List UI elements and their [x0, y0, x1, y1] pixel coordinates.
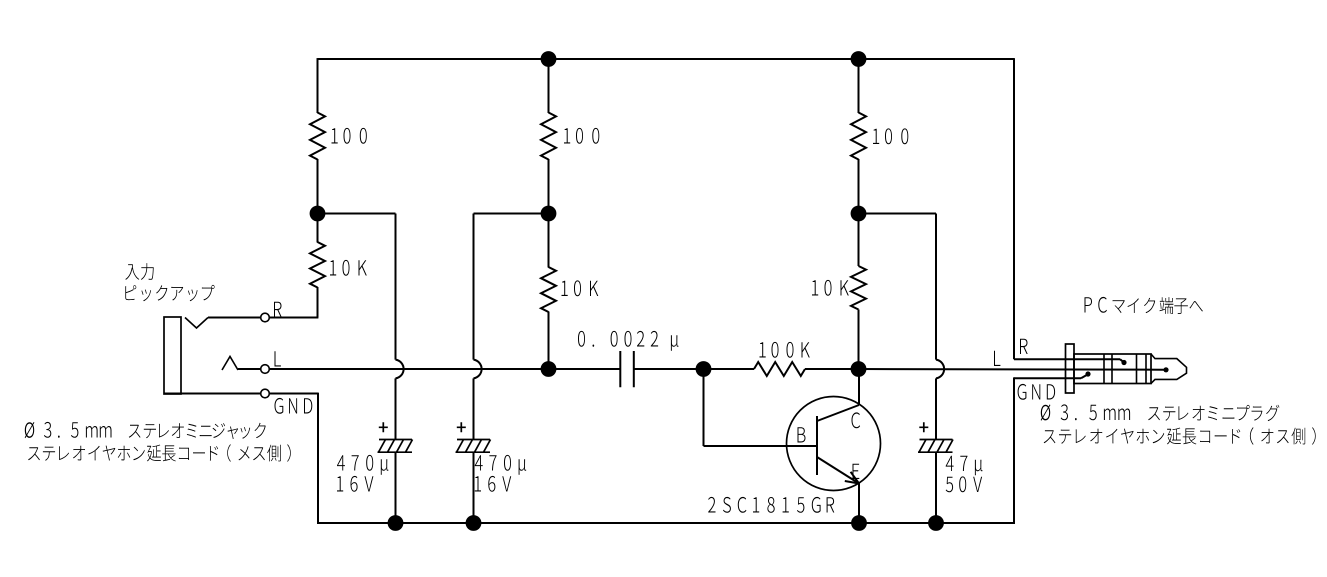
- label R3 100: [873, 128, 908, 144]
- label P1 L: [994, 351, 1000, 366]
- junction top rail right: [851, 51, 867, 67]
- wire base node down: [703, 369, 705, 446]
- plug P1 ring contact dot: [1121, 360, 1126, 365]
- label R1 100: [332, 128, 367, 144]
- label C4 50V: [946, 476, 982, 492]
- label C2 470u: [475, 455, 526, 475]
- wire L line left: [238, 368, 261, 370]
- hop C4 riser over L line: [936, 360, 944, 379]
- transistor Q1 emitter arrowhead: [845, 472, 859, 484]
- resistor R6 10K (right): [851, 266, 866, 310]
- wire node C to C4 riser: [859, 213, 937, 215]
- wire emitter to ground: [858, 484, 860, 524]
- wire R5 to L line: [548, 312, 550, 370]
- resistor R5 10K (middle): [541, 267, 556, 312]
- junction ground emitter: [851, 515, 867, 531]
- resistor R1 100 (left): [310, 113, 325, 160]
- label R2 100: [564, 128, 599, 144]
- capacitor C4 47u 50V electrolytic: [918, 422, 953, 452]
- transistor Q1 base bar: [816, 416, 818, 475]
- plug P1 tip: [1151, 354, 1187, 384]
- label PC mic terminal: [1085, 297, 1203, 314]
- label Q1 2SC1815GR: [708, 497, 834, 513]
- wire C4 riser upper: [935, 214, 937, 360]
- plug P1 sleeve contact dot: [1085, 371, 1090, 376]
- plug P1 insulator bands: [1104, 354, 1146, 384]
- node A junction (R1/R4/C1): [310, 206, 326, 222]
- label jack spec line1: [25, 422, 266, 439]
- capacitor C3 0.0022u film: [620, 351, 634, 387]
- transistor Q1 2SC1815GR circle: [787, 397, 881, 491]
- jack J1 terminal GND: [261, 389, 270, 398]
- wire C2 riser lower: [473, 378, 475, 439]
- transistor Q1 emitter diagonal: [817, 457, 859, 484]
- label C1 470u: [337, 455, 388, 475]
- wire R3 to R6 lead: [858, 159, 860, 214]
- wire R4 bottom to R terminal: [317, 287, 319, 318]
- wire bottom ground rail: [318, 522, 1014, 524]
- wire R terminal to tip contact: [208, 317, 261, 319]
- wire C4 to ground rail: [935, 452, 937, 523]
- resistor R4 10K (left): [310, 242, 325, 288]
- wire L line C3 to node D: [634, 368, 704, 370]
- wire R2 to R5 lead: [548, 159, 550, 268]
- wire C2 riser upper: [473, 214, 475, 360]
- label J1 GND: [275, 398, 313, 414]
- label R7 100K: [760, 342, 810, 358]
- resistor R2 100 (middle): [541, 113, 556, 160]
- wire C4 riser lower: [935, 378, 937, 439]
- jack J1 body: [164, 317, 181, 394]
- wire plug GND bend to sleeve: [1081, 374, 1088, 378]
- wire middle branch top lead: [548, 58, 550, 113]
- label R4 10K: [330, 260, 367, 276]
- junction L line at R5: [541, 361, 557, 377]
- wire L line to C3: [269, 368, 620, 370]
- label J1 L: [275, 351, 281, 366]
- label J1 R: [274, 302, 282, 317]
- wire plug GND horizontal: [1014, 377, 1081, 379]
- jack J1 terminal L: [261, 365, 270, 374]
- label P1 R: [1020, 339, 1028, 354]
- wire left branch top lead: [317, 58, 319, 113]
- plug P1 tip contact dot: [1163, 367, 1168, 372]
- jack J1 terminal R: [261, 313, 270, 322]
- node D junction (C3/100K/base): [696, 361, 712, 377]
- jack J1 L contact caret: [222, 357, 238, 371]
- wire C2 to ground rail: [473, 452, 475, 523]
- node C junction (R3/R6/C4): [851, 206, 867, 222]
- wire plug R horizontal: [1014, 358, 1120, 360]
- label P1 GND: [1018, 384, 1056, 400]
- hop C1 riser over L line: [396, 360, 404, 379]
- label plug spec line1: [1041, 404, 1280, 421]
- transistor Q1 collector diagonal: [817, 405, 859, 421]
- plug P1 body: [1074, 354, 1151, 384]
- wire node B to C2 riser: [474, 213, 549, 215]
- plug P1 collar: [1066, 344, 1075, 393]
- wire R6 top lead: [858, 214, 860, 267]
- jack J1 tip contact V: [185, 318, 208, 329]
- label plug spec line2: [1044, 427, 1316, 445]
- label R5 10K: [562, 280, 599, 296]
- resistor R7 100K: [754, 362, 805, 376]
- wire C1 to ground rail: [395, 452, 397, 523]
- hop C2 riser over L line: [474, 360, 482, 379]
- wire node A to C1 riser: [318, 213, 396, 215]
- wire collector vertical: [858, 369, 860, 405]
- junction top rail middle: [541, 51, 557, 67]
- wire GND jack line: [164, 393, 261, 395]
- wire R1 to R4 junction: [317, 159, 319, 243]
- junction ground C4: [928, 515, 944, 531]
- label Q1 pin C: [852, 412, 861, 428]
- label Q1 pin E: [853, 464, 860, 479]
- label C4 47u: [946, 456, 983, 476]
- wire 100K left lead: [704, 368, 755, 370]
- wire L line to plug tip: [859, 368, 1165, 371]
- resistor R3 100 (right): [851, 113, 866, 160]
- label input nyuryoku: [125, 263, 153, 280]
- wire C1 riser upper: [395, 214, 397, 360]
- wire base horizontal: [704, 445, 818, 447]
- wire plug GND riser: [1013, 377, 1015, 524]
- junction ground C2: [466, 515, 482, 531]
- label R6 10K: [812, 280, 849, 296]
- label C1 16V: [337, 476, 373, 492]
- junction ground C1: [388, 515, 404, 531]
- node B junction (R2/R5/C2): [541, 206, 557, 222]
- label Q1 pin B: [798, 427, 806, 442]
- capacitor C2 470u 16V electrolytic: [456, 422, 491, 452]
- wire right branch top lead: [858, 58, 860, 113]
- wire plug R bend to ring: [1120, 359, 1124, 362]
- wire R6 bottom to collector node: [858, 310, 860, 370]
- capacitor C1 470u 16V electrolytic: [378, 422, 413, 452]
- wire C1 riser lower: [395, 378, 397, 439]
- label C2 16V: [475, 476, 511, 492]
- label input pickup: [125, 285, 214, 301]
- junction collector node: [851, 361, 867, 377]
- label C3 0.0022u: [578, 331, 679, 351]
- label jack spec line2: [28, 444, 291, 462]
- wire right rail down to plug R: [1013, 58, 1015, 359]
- wire top supply rail: [318, 58, 1015, 60]
- wire 100K right lead: [805, 368, 859, 370]
- wire GND jack riser: [317, 393, 319, 524]
- wire GND jack line2: [269, 393, 318, 395]
